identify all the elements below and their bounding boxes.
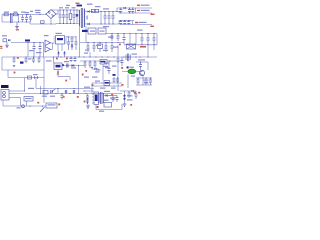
label row	[59, 5, 76, 9]
junction	[47, 93, 86, 94]
wire	[69, 77, 71, 81]
label ground	[16, 29, 19, 30]
resistor R9	[100, 60, 107, 65]
node red r	[130, 104, 132, 106]
wire	[11, 42, 44, 44]
pin circle	[3, 95, 6, 98]
label red box	[17, 57, 19, 58]
resistor R4	[74, 57, 77, 62]
wire	[120, 90, 136, 92]
wire	[80, 56, 157, 58]
label U5	[56, 65, 61, 68]
wire	[35, 78, 37, 89]
relay K1	[127, 44, 136, 49]
ground	[123, 102, 127, 106]
label green under	[131, 76, 135, 77]
junction	[95, 82, 114, 86]
node red f	[82, 74, 84, 76]
wire	[51, 23, 80, 26]
transistor Q1 highlighted	[128, 69, 136, 74]
wire	[57, 88, 58, 94]
label red tip	[150, 26, 154, 27]
node red h	[121, 67, 123, 69]
capacitor C46	[51, 89, 56, 94]
label above rail	[137, 30, 143, 31]
capacitor C56	[61, 94, 64, 100]
label red left	[0, 46, 2, 49]
node red m	[111, 94, 113, 96]
capacitor C23	[25, 56, 28, 63]
node red t	[63, 96, 65, 98]
junction	[39, 42, 40, 43]
capacitor C14	[119, 20, 122, 25]
IC U1	[56, 36, 65, 45]
label corner	[27, 10, 40, 15]
label F1	[4, 12, 9, 13]
junction	[87, 42, 118, 43]
wire	[57, 70, 59, 72]
resistor R7	[98, 28, 106, 34]
optocoupler U3	[45, 40, 51, 46]
label R6	[82, 30, 95, 32]
wire	[40, 86, 41, 94]
label U6	[95, 95, 98, 102]
wire	[45, 10, 58, 15]
wire	[36, 88, 94, 89]
capacitor C34	[147, 34, 150, 45]
label T3	[132, 54, 138, 55]
label sec	[103, 8, 109, 27]
label red K1	[140, 46, 146, 48]
junction	[104, 11, 105, 25]
wire	[91, 83, 93, 94]
capacitor C9	[108, 12, 111, 25]
wire	[107, 60, 122, 62]
capacitor C38	[89, 60, 92, 68]
thermistor RT1	[41, 21, 45, 23]
capacitor C22	[13, 56, 16, 63]
capacitor C29	[87, 43, 90, 53]
label br1	[127, 95, 133, 100]
label bc4	[99, 111, 104, 112]
wire	[51, 43, 56, 49]
wire	[147, 45, 149, 57]
label R2	[87, 4, 101, 8]
wire	[30, 22, 51, 24]
label AC	[25, 11, 34, 13]
connector J1	[1, 90, 9, 101]
node red a	[56, 58, 58, 60]
transformer T3	[126, 54, 130, 62]
label mid2	[113, 47, 119, 48]
diagonal wire	[40, 107, 45, 112]
wire	[2, 56, 80, 58]
wire	[57, 44, 59, 51]
capacitor C24	[32, 56, 35, 63]
connector J4	[24, 97, 33, 102]
wire	[43, 43, 45, 58]
label r2	[36, 52, 42, 53]
regulator U2	[3, 39, 10, 42]
resistor R6	[88, 28, 96, 34]
node red q	[138, 92, 140, 94]
wire	[67, 36, 76, 37]
capacitor C43	[137, 77, 140, 85]
label PWR dark	[1, 85, 9, 88]
junction	[63, 9, 64, 24]
pin	[65, 37, 68, 43]
wire	[102, 64, 104, 81]
capacitor C5	[62, 10, 65, 24]
wire	[92, 85, 122, 87]
wire	[80, 42, 124, 44]
label d13	[92, 67, 110, 78]
zener D7	[57, 51, 59, 57]
pin	[53, 56, 54, 63]
wire	[9, 97, 21, 99]
label under line	[17, 107, 21, 108]
junction	[120, 7, 121, 13]
label bc1	[42, 96, 55, 97]
label R7	[84, 31, 105, 58]
capacitor C54	[113, 77, 116, 83]
wire	[127, 74, 129, 88]
pin dark2	[113, 74, 116, 76]
junction	[91, 67, 93, 69]
junction	[91, 11, 92, 12]
junction	[83, 56, 148, 57]
ground small	[13, 66, 15, 67]
wire	[118, 21, 120, 25]
label q top	[138, 59, 145, 60]
capacitor C48	[73, 90, 74, 94]
capacitor C52	[128, 91, 131, 98]
diode D13	[92, 68, 100, 70]
transformer T1 secondary	[84, 9, 87, 28]
wire	[92, 82, 122, 84]
LED D10	[57, 72, 59, 77]
resistor R1	[69, 10, 72, 24]
diode D9	[72, 64, 74, 67]
node red n	[84, 101, 86, 103]
wire	[7, 70, 9, 78]
junction	[26, 14, 27, 23]
resistor R2	[91, 9, 98, 12]
connector circle J2	[22, 105, 25, 108]
wire	[78, 66, 80, 94]
capacitor C10	[112, 12, 115, 25]
capacitor C36	[67, 64, 68, 68]
IC U6	[94, 92, 99, 105]
label lower	[71, 67, 76, 68]
capacitor C28	[117, 34, 120, 42]
comparator U4	[45, 47, 51, 53]
label VCC	[25, 40, 30, 42]
capacitor C55	[116, 77, 119, 83]
transistor Q2	[139, 70, 144, 75]
capacitor CX1	[29, 15, 32, 23]
wire	[83, 90, 94, 91]
node red j	[37, 102, 39, 104]
wire	[117, 8, 152, 12]
capacitor C20	[71, 36, 74, 50]
junction	[129, 7, 130, 13]
label c27	[108, 37, 113, 38]
junction	[33, 42, 34, 43]
label bc2	[84, 87, 110, 92]
capacitor C19	[67, 36, 70, 50]
junction	[112, 11, 113, 25]
label r1	[29, 50, 34, 51]
junction	[66, 9, 67, 24]
capacitor C1	[13, 13, 17, 16]
wire	[153, 45, 155, 50]
label cl2	[84, 77, 116, 89]
capacitor C40	[108, 61, 111, 74]
wire	[85, 23, 121, 25]
junction	[109, 60, 118, 61]
wire	[9, 90, 25, 92]
wire	[20, 98, 22, 107]
wire	[147, 62, 149, 70]
label mid1	[85, 45, 108, 51]
label q2	[127, 66, 134, 68]
label win	[87, 16, 88, 20]
wire	[80, 60, 100, 62]
capacitor C2	[21, 15, 24, 23]
bridge rectifier D1	[46, 10, 56, 19]
capacitor C27	[111, 34, 114, 42]
wire	[129, 34, 131, 45]
junction	[132, 7, 135, 13]
wire	[124, 44, 157, 46]
wire	[124, 91, 126, 102]
diode D12	[132, 90, 134, 92]
wire	[50, 19, 52, 25]
wire	[117, 45, 119, 57]
capacitor C25	[38, 56, 41, 63]
wire	[136, 61, 148, 63]
capacitor C4	[59, 10, 62, 24]
wire	[8, 77, 44, 79]
snubber D2	[76, 10, 78, 24]
capacitor C49	[86, 94, 89, 104]
label U5 top	[46, 60, 69, 62]
wire	[51, 9, 80, 11]
pin	[92, 94, 94, 103]
resistor R8	[98, 43, 103, 53]
diode D3	[88, 10, 90, 12]
wire	[44, 93, 122, 95]
inductor L1	[11, 13, 13, 23]
pin circle	[3, 91, 6, 94]
resistor R12	[43, 91, 48, 95]
wire	[104, 95, 113, 97]
capacitor C21	[75, 36, 78, 50]
label R9	[101, 61, 106, 63]
capacitor C16	[127, 20, 132, 25]
capacitor C53	[135, 91, 138, 99]
diode D11	[106, 94, 108, 96]
wire	[62, 65, 84, 67]
node red d	[119, 44, 121, 46]
wire	[85, 26, 87, 43]
wire	[96, 105, 122, 110]
junction	[73, 9, 74, 24]
capacitor C13	[131, 8, 134, 13]
capacitor C7	[73, 10, 76, 24]
wire	[9, 93, 44, 95]
label U1	[57, 38, 63, 40]
capacitor C45	[149, 77, 152, 85]
junction	[50, 23, 51, 24]
junction	[59, 9, 60, 24]
capacitor C35	[153, 34, 156, 45]
junction	[141, 44, 154, 45]
junction	[108, 11, 109, 25]
resistor R10	[104, 81, 110, 86]
node red b	[66, 58, 68, 60]
wire	[43, 70, 45, 94]
wire	[2, 21, 30, 23]
capacitor C39	[94, 60, 97, 68]
capacitor C42	[121, 57, 124, 66]
label cl1	[96, 63, 117, 71]
label caps	[28, 58, 32, 59]
junction	[27, 42, 28, 43]
junction	[100, 11, 101, 25]
diode D6	[71, 45, 74, 47]
wire	[61, 44, 63, 51]
wire	[85, 11, 121, 13]
wire	[142, 76, 144, 86]
ground	[5, 42, 9, 48]
wire	[3, 100, 46, 106]
label out3	[135, 22, 147, 23]
enclosure box	[2, 57, 44, 70]
label J3	[48, 104, 56, 105]
node red s	[85, 70, 87, 72]
capacitor C51	[113, 96, 119, 103]
label out2	[137, 10, 150, 11]
label C2	[21, 12, 26, 13]
node red c	[14, 72, 16, 74]
capacitor C33	[141, 34, 144, 45]
label U2	[2, 35, 7, 36]
node	[1, 15, 3, 23]
label red right	[151, 14, 155, 15]
capacitor C12	[128, 8, 131, 13]
wire	[136, 77, 152, 79]
node red e	[65, 80, 67, 82]
junction	[56, 56, 79, 57]
diode D5	[124, 7, 126, 9]
pin dark	[62, 64, 64, 66]
capacitor C44	[145, 77, 148, 85]
capacitor C3	[25, 15, 28, 23]
capacitor C58	[117, 57, 120, 63]
label T1	[77, 5, 83, 7]
resistor R5	[28, 76, 38, 79]
capacitor C30	[93, 43, 96, 53]
label opto	[44, 35, 49, 36]
capacitor C32	[111, 43, 114, 53]
junction	[70, 9, 71, 24]
wire	[106, 33, 157, 35]
node red g	[92, 84, 94, 86]
transformer T1 core	[81, 8, 82, 28]
connector J3	[46, 103, 57, 108]
node red o	[97, 106, 99, 108]
wire	[135, 34, 137, 45]
ground	[86, 104, 90, 108]
junction	[111, 33, 154, 34]
wire	[120, 24, 152, 26]
junction big	[123, 95, 125, 100]
wire	[100, 12, 102, 25]
label rt	[144, 80, 149, 84]
label dark box	[20, 62, 24, 64]
wire	[122, 71, 140, 73]
wire	[121, 104, 123, 110]
ground	[15, 22, 19, 29]
wire	[43, 94, 45, 104]
label out1	[137, 5, 150, 6]
label bl	[28, 88, 34, 89]
transformer T1 primary	[78, 10, 81, 26]
zener D8	[63, 51, 65, 57]
capacitor C18	[39, 43, 42, 58]
junction	[78, 65, 79, 66]
wire	[27, 43, 29, 58]
wire	[18, 15, 20, 23]
wire	[79, 26, 81, 57]
wire	[58, 76, 70, 78]
resistor R13	[104, 103, 112, 108]
wire	[156, 34, 158, 45]
optocoupler U5	[54, 63, 62, 70]
wire	[24, 78, 25, 92]
label R5	[33, 74, 38, 75]
capacitor C6	[66, 10, 69, 24]
diode D4	[88, 23, 90, 25]
wire	[2, 14, 46, 16]
junction	[109, 95, 110, 96]
junction	[76, 9, 77, 10]
wire	[117, 61, 119, 91]
wire	[136, 84, 152, 86]
capacitor C37	[84, 60, 87, 68]
label U1 top	[56, 33, 63, 34]
node red k	[58, 104, 60, 106]
fuse F1	[4, 13, 8, 16]
capacitor C41	[139, 61, 142, 70]
capacitor C17	[33, 43, 36, 58]
wire	[119, 12, 152, 14]
node red l	[77, 96, 79, 98]
capacitor C47	[65, 90, 66, 94]
pin	[27, 101, 44, 107]
node red p	[134, 92, 136, 94]
junction	[18, 14, 19, 23]
label C1	[14, 12, 18, 13]
label red top	[76, 3, 80, 4]
label bc3	[103, 98, 116, 101]
capacitor C8	[104, 12, 107, 25]
transformer T2	[99, 92, 104, 104]
capacitor C50	[112, 96, 115, 103]
capacitor C15	[123, 20, 126, 25]
